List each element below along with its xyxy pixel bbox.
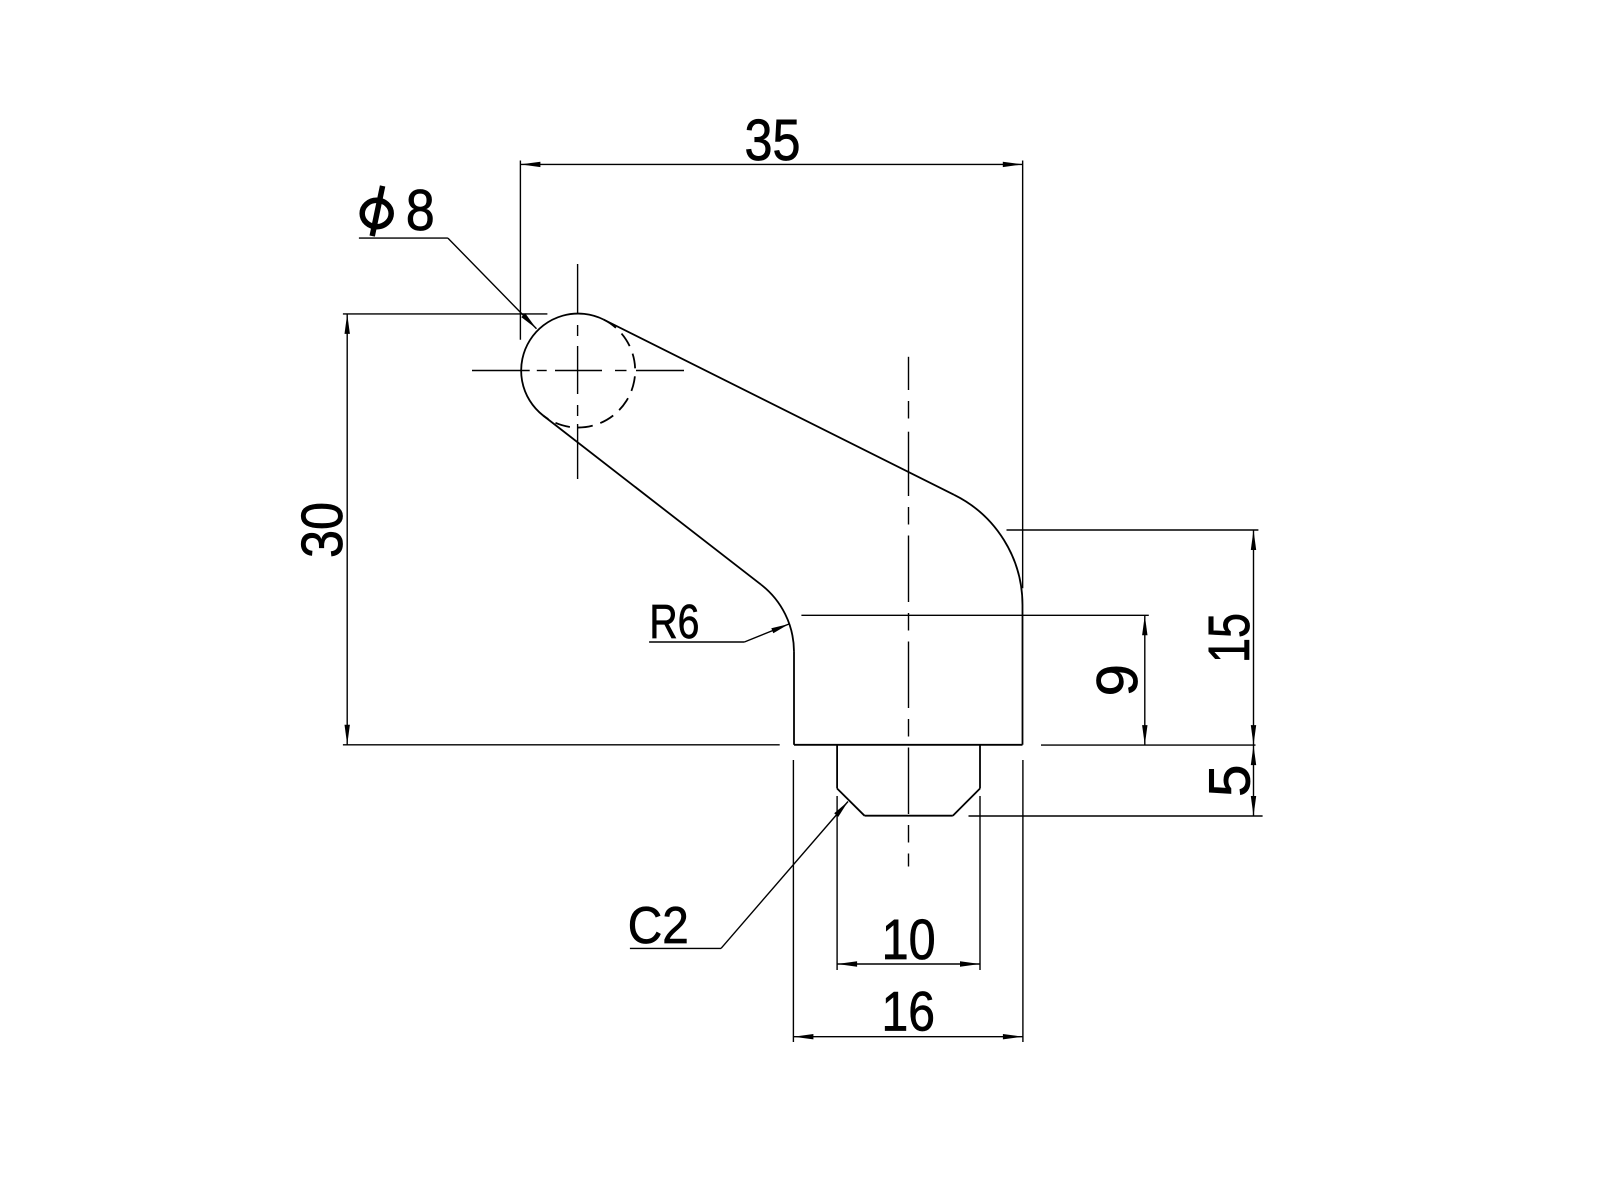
dimension 16: extension lines [792, 760, 794, 1042]
label C2: leader underline [630, 947, 721, 949]
dimension 15: top arrow [1251, 530, 1256, 550]
svg-text:8: 8 [406, 178, 435, 243]
part outline: base bottom face [794, 744, 1023, 746]
dimension 30: extension lines [343, 313, 548, 315]
dimension 5: bottom extension line [969, 815, 1263, 817]
dimension 30: top arrow [345, 314, 350, 334]
part outline: R6 fillet [761, 585, 794, 652]
label phi8: leader underline [359, 237, 448, 239]
dimension 9: top arrow [1142, 615, 1147, 635]
part outline: left edge vertical [793, 652, 795, 745]
svg-text:30: 30 [290, 502, 355, 558]
dimension 30: bottom arrow [345, 725, 350, 745]
label phi8: leader slant [448, 238, 537, 329]
dimension 15: extension line top [1007, 529, 1259, 531]
part outline: right edge vertical [1022, 605, 1024, 745]
dimension 5: dimension line [1253, 745, 1255, 816]
label C2: leader slant [721, 802, 848, 949]
label C2: leader arrow [834, 802, 848, 817]
dimension 30: dimension line [346, 314, 348, 745]
svg-text:C2: C2 [628, 897, 689, 955]
svg-text:R6: R6 [649, 596, 699, 649]
part outline: left chamfer C2 [837, 789, 864, 816]
label phi8: leader arrow [521, 313, 536, 329]
dimension 16: dimension line [793, 1036, 1023, 1038]
dimension 35: right arrow [1003, 162, 1023, 167]
dimension 5: bottom arrow [1251, 796, 1256, 816]
svg-text:35: 35 [745, 108, 801, 173]
part outline: right chamfer C2 [953, 789, 980, 816]
dimension 10: dimension line [837, 963, 980, 965]
part outline: upper slant edge [604, 320, 955, 495]
label phi8: phi symbol slash [372, 186, 382, 236]
dimension 16: left arrow [793, 1034, 813, 1039]
dimension 16: right arrow [1003, 1034, 1023, 1039]
dimension 15: dimension line [1253, 530, 1255, 745]
dimension 35: dimension line [520, 163, 1022, 165]
dimension 10: right arrow [960, 961, 980, 966]
part outline: boss bottom face [865, 815, 953, 817]
part outline: lower slant edge [543, 416, 761, 585]
label R6: leader arrow [771, 624, 789, 633]
dimension 35: left arrow [520, 162, 540, 167]
svg-text:10: 10 [882, 908, 936, 972]
svg-text:9: 9 [1085, 664, 1150, 696]
svg-text:5: 5 [1198, 765, 1263, 797]
dimension 10: left arrow [837, 961, 857, 966]
part outline: boss right edge [979, 745, 981, 789]
dimension 9: dimension line [1144, 615, 1146, 745]
label phi8: phi symbol circle [362, 200, 391, 226]
svg-text:15: 15 [1197, 613, 1262, 663]
label R6: leader underline [649, 641, 744, 643]
dimension 5: top arrow [1251, 745, 1256, 765]
label R6: leader slant [744, 624, 789, 642]
svg-text:16: 16 [882, 979, 936, 1042]
centerline: hole vertical [577, 264, 579, 479]
part outline: base top face edge (continues as 9-dim extension) [801, 614, 1148, 616]
dimension 15: bottom arrow [1251, 725, 1256, 745]
centerline: hole horizontal [472, 370, 684, 372]
part outline: boss solid arc (hole end, left/top portion) [521, 314, 603, 416]
bottom face extension line (right, for 9/15/5) [1041, 744, 1256, 746]
part outline: hidden arc (dashed, right portion of circle) [543, 320, 635, 428]
part outline: boss left edge [836, 745, 838, 789]
part outline: right big curve R into right edge [954, 495, 1022, 605]
dimension 9: bottom arrow [1142, 725, 1147, 745]
dimension 10: extension lines [836, 796, 838, 970]
dimension 35: extension lines [519, 161, 521, 340]
centerline: boss vertical axis [908, 357, 910, 867]
